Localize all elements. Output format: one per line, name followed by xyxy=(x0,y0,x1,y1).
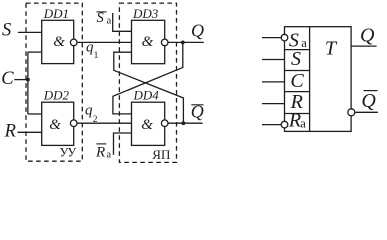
wire Qbar output stub xyxy=(355,111,378,113)
svg-text:DD4: DD4 xyxy=(133,88,160,103)
wire Ra async input stub xyxy=(114,133,132,155)
wire Q output stub xyxy=(351,45,377,47)
dashed box УУ control unit xyxy=(26,3,82,161)
wire C branch vertical xyxy=(27,52,29,114)
svg-text:УУ: УУ xyxy=(60,145,77,159)
wire Qbar output xyxy=(168,122,203,124)
svg-text:R: R xyxy=(288,109,301,131)
wire Sa input stub xyxy=(262,37,281,39)
block row divider 3 xyxy=(285,91,310,93)
wire R input stub xyxy=(262,103,285,105)
gate DD1 xyxy=(42,20,74,63)
block row divider 1 xyxy=(285,49,310,51)
gate DD4 xyxy=(132,102,165,145)
bubble Qbar output xyxy=(348,109,355,116)
wire q1 DD1 out to DD3 in2 xyxy=(77,41,132,43)
svg-text:1: 1 xyxy=(94,51,99,61)
svg-text:&: & xyxy=(49,117,61,133)
block inner divider xyxy=(309,27,311,132)
wire DD2 input 1 xyxy=(28,113,42,115)
bubble DD4 output xyxy=(161,120,168,127)
svg-text:DD3: DD3 xyxy=(132,6,159,21)
svg-text:S: S xyxy=(291,48,301,70)
wire R input xyxy=(18,131,42,133)
svg-text:Q: Q xyxy=(191,21,204,41)
wire S input xyxy=(18,31,42,33)
wire DD1 input 2 xyxy=(28,51,42,53)
block row divider 4 xyxy=(285,113,310,115)
wire feedback Qbar to DD3 in3 xyxy=(114,52,184,123)
block row divider 2 xyxy=(285,70,310,72)
gate DD3 xyxy=(132,20,165,63)
svg-text:S: S xyxy=(2,20,11,40)
svg-text:DD2: DD2 xyxy=(43,88,70,103)
bubble Ra input xyxy=(281,121,288,128)
junction C node xyxy=(26,78,30,82)
bubble DD1 output xyxy=(70,39,77,46)
svg-text:C: C xyxy=(290,70,304,92)
wire Sa async input stub xyxy=(113,13,132,31)
block body xyxy=(285,27,352,132)
svg-text:Q: Q xyxy=(360,24,375,46)
wire Q output xyxy=(168,41,204,43)
svg-text:a: a xyxy=(300,117,306,131)
wire Ra input stub xyxy=(262,124,281,126)
svg-text:a: a xyxy=(106,150,111,161)
wire S input stub xyxy=(262,59,285,61)
gate DD2 xyxy=(42,102,74,145)
svg-text:&: & xyxy=(53,34,65,50)
svg-text:2: 2 xyxy=(93,115,98,125)
bubble DD2 output xyxy=(70,120,77,127)
svg-text:S: S xyxy=(97,10,105,26)
junction Qbar node xyxy=(182,121,186,125)
bubble DD3 output xyxy=(161,39,168,46)
svg-text:a: a xyxy=(301,36,307,50)
svg-text:q: q xyxy=(85,103,93,119)
svg-text:R: R xyxy=(4,122,16,142)
svg-text:&: & xyxy=(141,117,153,133)
block symbol T flip-flop xyxy=(262,27,378,132)
wire feedback Q to DD4 in1 xyxy=(113,42,183,114)
svg-text:C: C xyxy=(1,69,14,89)
svg-text:&: & xyxy=(142,34,154,50)
svg-text:R: R xyxy=(95,144,105,160)
wire q2 DD2 out to DD4 in2 xyxy=(77,122,132,124)
wire C input xyxy=(14,79,28,81)
svg-text:a: a xyxy=(107,16,112,27)
dashed box ЯП memory cell xyxy=(119,3,176,162)
bubble Sa input xyxy=(281,34,288,41)
svg-text:Q: Q xyxy=(361,90,376,112)
svg-text:DD1: DD1 xyxy=(43,6,69,21)
svg-text:T: T xyxy=(325,37,338,59)
junction Q node xyxy=(181,41,185,45)
svg-text:ЯП: ЯП xyxy=(152,147,170,162)
wire C input stub xyxy=(262,81,285,83)
